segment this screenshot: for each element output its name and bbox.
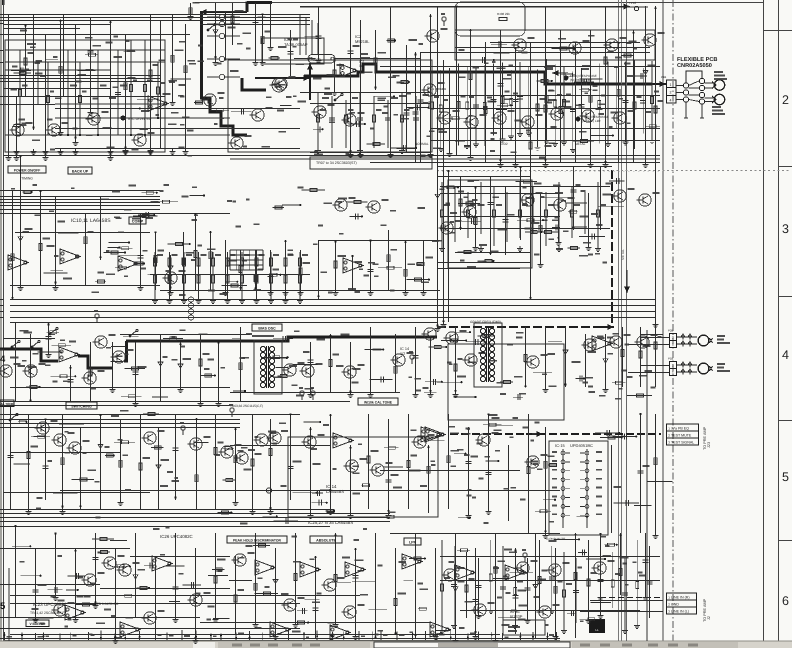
resistor <box>570 210 577 213</box>
junction <box>287 356 289 358</box>
pin label <box>552 487 557 489</box>
junction <box>118 246 120 248</box>
value label <box>273 442 278 444</box>
rounded block <box>455 2 525 36</box>
junction <box>97 134 99 136</box>
wire <box>467 341 485 343</box>
junction <box>44 418 46 420</box>
junction <box>542 219 544 221</box>
ref label <box>596 108 603 110</box>
capacitor <box>43 466 49 468</box>
wire <box>200 24 310 26</box>
wire <box>160 290 440 292</box>
wire <box>0 202 4 204</box>
pin label <box>596 451 602 453</box>
wire <box>273 338 293 340</box>
svg-text:4: 4 <box>782 348 789 362</box>
wire <box>441 540 443 628</box>
junction <box>14 525 16 527</box>
wire <box>59 633 61 640</box>
resistor <box>171 55 174 62</box>
peak hold box <box>227 536 287 543</box>
capacitor <box>173 448 179 450</box>
transistor TR8 <box>249 109 264 121</box>
ref label <box>316 363 323 365</box>
wire <box>105 455 114 457</box>
junction <box>469 29 471 31</box>
wire <box>391 147 416 149</box>
resistor <box>226 479 233 482</box>
diode <box>133 575 138 579</box>
transistor TR61 <box>369 464 384 476</box>
wire <box>375 533 377 638</box>
svg-text:IC25,27 N 35 LA6458S: IC25,27 N 35 LA6458S <box>308 520 353 525</box>
wire <box>598 205 624 207</box>
resistor <box>447 186 454 189</box>
junction <box>474 396 476 398</box>
diode <box>168 266 173 270</box>
wire <box>218 342 220 401</box>
value label <box>179 329 185 331</box>
ground <box>476 613 482 619</box>
wire <box>79 62 81 135</box>
ground <box>268 290 274 296</box>
wire <box>198 252 200 298</box>
junction <box>622 435 624 437</box>
wire <box>0 34 4 36</box>
resistor <box>544 231 551 234</box>
value label <box>33 353 39 355</box>
resistor <box>651 97 654 104</box>
wire <box>4 17 311 19</box>
value label <box>341 75 345 77</box>
value label <box>621 369 627 371</box>
IC15 UPD4051BC <box>549 441 608 535</box>
junction <box>156 98 158 100</box>
wire <box>227 252 229 298</box>
ref label <box>133 562 140 564</box>
wire <box>10 603 300 605</box>
svg-text:BACK UP: BACK UP <box>72 169 89 173</box>
wire <box>378 267 402 269</box>
junction <box>554 499 556 501</box>
wire <box>310 342 312 392</box>
ground <box>60 509 66 515</box>
wire <box>195 631 197 640</box>
ground <box>488 608 494 614</box>
value label <box>258 577 263 579</box>
capacitor <box>643 560 649 562</box>
wire <box>299 14 301 55</box>
pin circles col B <box>699 78 704 104</box>
junction <box>616 544 618 546</box>
value label <box>288 38 292 40</box>
value label <box>433 147 441 149</box>
wire <box>519 62 521 131</box>
resistor <box>451 339 458 342</box>
resistor <box>394 598 397 605</box>
wire <box>424 392 437 394</box>
wire <box>502 546 504 628</box>
wire <box>0 584 4 586</box>
wire <box>545 59 547 138</box>
value label <box>548 204 554 206</box>
value label <box>409 107 414 109</box>
wire <box>645 125 660 127</box>
wire <box>35 548 37 617</box>
wire <box>26 386 39 388</box>
ground <box>428 392 434 398</box>
wire <box>4 414 301 416</box>
wire <box>255 533 257 622</box>
value label <box>473 66 479 68</box>
wire <box>625 62 627 140</box>
ground <box>253 622 259 628</box>
ground <box>73 149 79 155</box>
ref label <box>158 610 165 612</box>
resistor <box>401 80 408 83</box>
wire <box>633 61 635 149</box>
wire <box>155 556 157 638</box>
ground <box>435 326 441 332</box>
wire <box>4 81 161 83</box>
wire <box>600 533 602 595</box>
ref label <box>438 82 445 84</box>
resistor <box>58 344 65 347</box>
wire <box>95 533 97 603</box>
resistor <box>47 96 50 103</box>
window taskbar strip <box>0 641 792 648</box>
lpf box <box>404 538 421 545</box>
op-amp IC9 <box>421 427 441 442</box>
ground <box>585 618 591 624</box>
wire <box>20 155 22 285</box>
junction <box>424 557 426 559</box>
wire <box>15 232 150 234</box>
wire <box>118 255 138 257</box>
ref label <box>528 37 535 39</box>
wire <box>370 240 372 290</box>
ground <box>413 392 419 398</box>
value label <box>373 263 379 265</box>
value label <box>518 590 526 592</box>
transistor TR47 <box>607 336 622 348</box>
wire <box>326 510 334 512</box>
ground <box>297 298 303 304</box>
wire <box>0 50 4 52</box>
ref label <box>179 270 186 272</box>
capacitor <box>88 51 94 53</box>
transistor TR28 <box>636 194 651 206</box>
wire <box>430 14 432 152</box>
ground <box>441 322 447 328</box>
wire <box>454 453 465 455</box>
wire <box>115 548 117 638</box>
wire <box>440 216 560 218</box>
ground <box>188 14 194 20</box>
ref label <box>298 362 305 364</box>
wire <box>4 155 661 157</box>
capacitor <box>556 224 558 230</box>
wire <box>169 601 180 603</box>
wire <box>597 182 599 246</box>
value label <box>38 584 47 586</box>
resistor <box>84 237 87 244</box>
test point <box>95 314 99 318</box>
value label <box>293 46 297 48</box>
preamp connector rows <box>667 424 699 445</box>
ground <box>473 142 479 148</box>
value label <box>459 49 465 51</box>
wire <box>453 546 455 623</box>
diode <box>98 444 103 448</box>
resistor <box>215 568 222 571</box>
ground <box>643 595 649 601</box>
wire <box>457 549 470 551</box>
wire <box>380 470 520 472</box>
resistor <box>541 79 548 82</box>
value label <box>539 156 546 158</box>
rec level badge <box>120 115 125 120</box>
junction <box>194 213 196 215</box>
transistor TR35 <box>81 372 96 384</box>
wire <box>195 548 197 638</box>
wire <box>14 463 31 465</box>
resistor <box>587 579 590 586</box>
pin label <box>596 513 602 515</box>
ground <box>173 617 179 623</box>
ground <box>254 298 260 304</box>
wire <box>440 186 610 188</box>
taskbar item <box>622 644 632 647</box>
junction <box>586 516 588 518</box>
resistor <box>197 258 200 266</box>
resistor <box>284 275 287 283</box>
wire <box>4 401 351 403</box>
svg-text:UPD4051BC: UPD4051BC <box>570 443 593 448</box>
transistor TR52 <box>187 438 202 450</box>
bus heavy dash to preamp <box>450 433 661 435</box>
wire <box>55 117 230 119</box>
resistor <box>387 255 390 262</box>
op-amp IC12 <box>255 560 275 575</box>
wire <box>10 305 655 307</box>
wire <box>437 6 439 326</box>
wire <box>510 70 512 134</box>
wire <box>506 192 508 242</box>
wire <box>253 544 270 546</box>
ground <box>453 638 459 644</box>
value label <box>313 463 321 465</box>
ground <box>653 533 659 539</box>
junction <box>532 636 534 638</box>
svg-text:5l133P: 5l133P <box>510 614 523 619</box>
junction <box>450 636 452 638</box>
resistor <box>539 225 542 232</box>
resistor <box>563 590 566 597</box>
ground <box>543 387 549 393</box>
wire <box>545 427 547 533</box>
ground <box>118 500 124 506</box>
wire <box>51 270 63 272</box>
wire <box>157 62 159 118</box>
junction <box>343 636 345 638</box>
wire <box>4 209 161 211</box>
wire <box>480 182 482 234</box>
wire <box>437 268 520 270</box>
value label <box>304 388 313 390</box>
resistor <box>417 262 424 265</box>
transistor TR60 <box>343 460 358 472</box>
resistor <box>636 582 639 589</box>
wire <box>0 23 4 25</box>
value label <box>106 347 111 349</box>
wire <box>249 631 251 640</box>
transistor TR6 <box>228 137 243 149</box>
value label <box>123 454 128 456</box>
wire <box>519 632 521 640</box>
svg-text:NORMAL: NORMAL <box>415 142 429 146</box>
wire <box>0 75 4 77</box>
wire <box>299 252 301 298</box>
ground <box>225 298 231 304</box>
wire <box>412 633 414 640</box>
diode <box>603 359 608 363</box>
value label <box>391 474 399 476</box>
value label <box>449 561 455 563</box>
wire <box>4 196 161 198</box>
wire <box>256 252 258 298</box>
value label <box>558 580 563 582</box>
junction <box>307 622 309 624</box>
test point <box>181 426 185 430</box>
ground <box>170 149 176 155</box>
wire <box>142 192 157 194</box>
wire <box>430 338 432 392</box>
value label <box>443 99 448 101</box>
wire <box>275 367 288 369</box>
wire <box>423 240 425 290</box>
scan edge band <box>0 0 2 648</box>
wire <box>651 61 653 138</box>
ground <box>110 387 116 393</box>
wire <box>545 6 547 162</box>
resistor <box>140 586 147 589</box>
wire <box>4 423 241 425</box>
wire <box>488 414 490 509</box>
value label <box>50 333 55 335</box>
wire <box>563 66 565 140</box>
ground <box>213 617 219 623</box>
fold dash-dot line <box>672 0 674 641</box>
wire <box>612 552 614 608</box>
taskbar item <box>600 644 610 647</box>
wire <box>275 548 277 634</box>
wire <box>505 186 507 255</box>
resistor <box>241 258 244 266</box>
value label <box>354 291 360 293</box>
wire <box>483 424 502 426</box>
value label <box>235 10 244 12</box>
wire <box>172 14 174 100</box>
wire <box>232 338 241 340</box>
capacitor <box>14 124 20 126</box>
wire <box>532 632 534 640</box>
value label <box>33 184 37 186</box>
resistor <box>588 618 595 621</box>
wire <box>449 68 451 151</box>
value label <box>120 85 127 87</box>
junction <box>30 191 32 193</box>
junction <box>322 128 324 130</box>
test point TP18 <box>634 6 638 10</box>
svg-text:LINE IN (R): LINE IN (R) <box>671 596 690 600</box>
junction <box>39 190 41 192</box>
ground <box>357 148 363 154</box>
junction <box>154 231 156 233</box>
wire <box>255 593 278 595</box>
wire <box>14 72 31 74</box>
junction <box>467 428 469 430</box>
wire <box>4 617 201 619</box>
ground <box>478 246 484 252</box>
lline black box <box>589 619 605 633</box>
wire <box>213 617 229 619</box>
capacitor <box>580 375 582 381</box>
wire <box>147 273 156 275</box>
resistor <box>196 101 203 104</box>
value label <box>488 100 497 102</box>
value label <box>639 575 645 577</box>
wire <box>270 250 272 290</box>
wire <box>498 616 516 618</box>
value label <box>548 99 556 101</box>
value label <box>353 45 360 47</box>
value label <box>58 555 63 557</box>
ref label <box>358 604 365 606</box>
value label <box>213 635 216 637</box>
wire <box>47 589 62 591</box>
ref label <box>651 334 658 336</box>
resistor <box>415 278 422 281</box>
wire <box>130 556 230 558</box>
value label <box>254 289 261 291</box>
value label <box>138 569 146 571</box>
ground <box>586 245 592 251</box>
bus heavy dashed horizontal <box>437 326 600 328</box>
ground <box>73 617 79 623</box>
wire <box>120 419 122 500</box>
svg-text:6: 6 <box>782 594 789 608</box>
wire <box>109 242 129 244</box>
wire <box>190 195 204 197</box>
wire <box>10 387 230 389</box>
wire <box>0 427 4 429</box>
value label <box>143 457 150 459</box>
wire <box>312 492 323 494</box>
wire <box>274 630 276 640</box>
wire <box>120 108 140 110</box>
ref label <box>360 458 367 460</box>
ground <box>43 155 49 161</box>
power on/off timing box <box>8 166 46 181</box>
wire <box>633 30 635 162</box>
wire <box>75 548 77 617</box>
value label <box>504 98 512 100</box>
value label <box>511 487 516 489</box>
wire <box>558 186 560 240</box>
resistor <box>194 250 197 257</box>
